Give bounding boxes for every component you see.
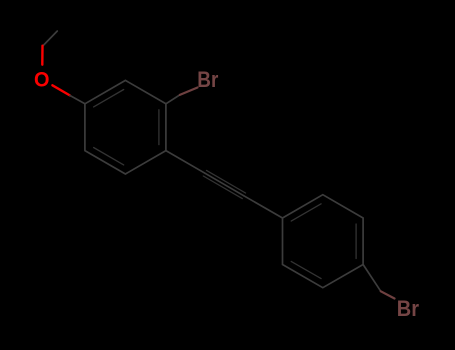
O-ring bond red half — [52, 85, 70, 95]
benzene ring 1 — [85, 80, 166, 174]
wire — [42, 31, 394, 299]
ethyl CH3-CH2 bond — [43, 31, 57, 46]
svg-text:Br: Br — [397, 296, 419, 321]
Br2 bond gray half — [363, 265, 381, 292]
alkyne chain bond 3 — [244, 196, 283, 218]
alkyne triple bond lower parallel — [207, 170, 246, 193]
benzene ring 2 — [283, 195, 364, 288]
alkyne chain bond 1 — [166, 151, 205, 174]
ring 1 inner double bond top-left — [94, 90, 124, 107]
ring 1 inner double bond bottom-left — [94, 148, 124, 165]
O-CH2 bond (red) — [41, 46, 44, 65]
alkyne triple bond upper parallel — [203, 176, 242, 199]
svg-text:O: O — [34, 68, 50, 92]
Br1 bond maroon half — [180, 88, 198, 95]
ring 2 inner double bond top-left — [291, 204, 321, 221]
Br2 bond maroon half — [381, 291, 395, 298]
O-ring bond gray half — [70, 96, 85, 104]
ring 2 inner double bond bottom-left — [291, 261, 321, 278]
ring 1 inner double bond right — [158, 110, 160, 145]
Br1 bond gray half — [166, 95, 180, 104]
svg-text:Br: Br — [197, 67, 218, 92]
ring 2 inner double bond right — [355, 224, 357, 259]
alkyne triple bond center line — [205, 173, 244, 196]
